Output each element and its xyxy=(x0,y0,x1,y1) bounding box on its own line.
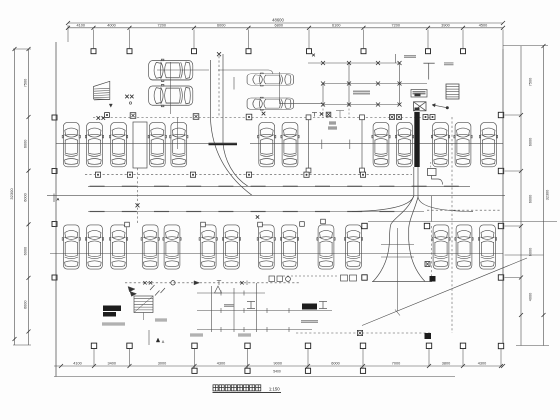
svg-text:4500: 4500 xyxy=(479,23,487,27)
svg-text:6000: 6000 xyxy=(24,193,28,201)
svg-text:3000: 3000 xyxy=(158,361,166,365)
svg-text:48600: 48600 xyxy=(272,17,284,22)
svg-text:32300: 32300 xyxy=(546,190,550,201)
svg-text:4300: 4300 xyxy=(478,361,486,365)
svg-text:6000: 6000 xyxy=(24,140,28,148)
svg-text:A: A xyxy=(162,340,165,344)
svg-text:7200: 7200 xyxy=(158,23,166,27)
svg-text:7000: 7000 xyxy=(392,361,400,365)
svg-text:4000: 4000 xyxy=(529,293,533,301)
svg-text:5400: 5400 xyxy=(273,370,281,374)
svg-text:4000: 4000 xyxy=(107,23,115,27)
svg-text:3900: 3900 xyxy=(441,23,449,27)
svg-text:6000: 6000 xyxy=(217,23,225,27)
svg-text:7500: 7500 xyxy=(529,78,533,86)
svg-text:6000: 6000 xyxy=(331,361,339,365)
svg-text:7500: 7500 xyxy=(24,79,28,87)
svg-text:6000: 6000 xyxy=(529,195,533,203)
svg-text:6100: 6100 xyxy=(332,23,340,27)
svg-text:6800: 6800 xyxy=(275,23,283,27)
svg-text:6000: 6000 xyxy=(24,300,28,308)
svg-text:4300: 4300 xyxy=(217,361,225,365)
svg-text:9000: 9000 xyxy=(274,361,282,365)
svg-text:6000: 6000 xyxy=(24,247,28,255)
svg-text:6000: 6000 xyxy=(529,138,533,146)
svg-text:32300: 32300 xyxy=(9,188,14,200)
svg-text:1:150: 1:150 xyxy=(269,387,280,392)
svg-text:4100: 4100 xyxy=(77,23,85,27)
svg-text:4100: 4100 xyxy=(73,361,81,365)
svg-text:3800: 3800 xyxy=(442,361,450,365)
svg-text:7200: 7200 xyxy=(392,23,400,27)
svg-text:3400: 3400 xyxy=(108,361,116,365)
svg-text:A: A xyxy=(57,197,60,202)
